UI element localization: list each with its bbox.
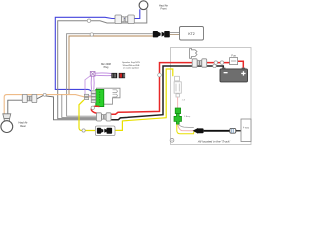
connector pair P1 (front horn harness): [115, 15, 134, 24]
mic connector J2: [119, 73, 125, 78]
wire red (power hot): [91, 106, 99, 113]
purple mic wires junction node: [85, 73, 111, 96]
mic connector J1: [111, 73, 117, 78]
ring splice on yellow: [82, 129, 85, 132]
outlet box: [241, 119, 251, 142]
black bullet connector pair to KT2: [153, 31, 170, 37]
rear horn plug: [3, 114, 11, 119]
inline fuse holder box: [95, 126, 115, 136]
svg-text:Plug: Plug: [104, 66, 109, 69]
ring splice on front horn wire: [87, 19, 90, 22]
ground symbol: [170, 138, 174, 142]
node X (mic splice): [90, 72, 95, 77]
truck enclosure box: [171, 48, 252, 145]
fuse FB (battery): [230, 58, 238, 65]
svg-text:on same ignition: on same ignition: [123, 67, 140, 70]
inline fuse F1 on yellow: [97, 128, 112, 134]
svg-text:2 A: 2 A: [182, 99, 186, 102]
stub wires into KT2: [170, 31, 180, 33]
green inline connector: [174, 114, 182, 125]
wire brown (KT2 pair conductor 2): [69, 36, 153, 95]
wire gray (front horn return): [58, 9, 147, 118]
svg-text:Fus: Fus: [231, 54, 236, 58]
head unit housing: [97, 88, 121, 104]
svg-text:Wheel/MicroUSB: Wheel/MicroUSB: [123, 64, 140, 67]
wire black (power ground): [110, 66, 223, 120]
pale fuse lead: [177, 97, 179, 108]
battery B1: [222, 68, 226, 70]
stack plug pins: [84, 91, 95, 103]
rear horn H2: [1, 121, 13, 133]
ring on red riser: [158, 73, 162, 77]
head unit board (green): [96, 89, 104, 106]
wire tan (rear horn hot): [4, 95, 93, 114]
svg-text:4 way: 4 way: [243, 128, 250, 130]
wire dark gray (rear horn return): [8, 100, 23, 114]
heavy lead to outlet: [204, 130, 230, 132]
ring splice on red hook: [91, 106, 94, 109]
svg-text:Rear: Rear: [20, 124, 26, 128]
wire yellow (accessory feed): [79, 100, 95, 131]
svg-text:KT2: KT2: [188, 32, 194, 36]
rings on red feed: [214, 61, 217, 64]
front horn H1: [139, 1, 148, 10]
wire blue (front horn hot): [55, 9, 140, 89]
connector pair P4 (battery feed): [192, 59, 207, 67]
ring splice on rear horn wire: [43, 93, 46, 96]
connector pair P2 (rear horn harness): [22, 94, 37, 102]
module KT2: [180, 27, 204, 41]
accessory plug leads: [177, 124, 194, 133]
wire gray tap to amp pair: [62, 95, 97, 118]
svg-text:All located in the 'Truck': All located in the 'Truck': [197, 140, 231, 144]
ring on black: [213, 64, 216, 67]
ring splice on KT2 pair: [90, 33, 93, 36]
svg-text:2 Amp: 2 Amp: [184, 115, 191, 118]
svg-text:Front: Front: [160, 7, 166, 11]
ignition key symbol: [190, 49, 197, 59]
svg-text:Speaker Key/GPS: Speaker Key/GPS: [122, 61, 140, 64]
inline barrel connector: [230, 128, 236, 133]
ghost fuse holder chain: [174, 76, 181, 97]
wire gray (KT2 pair conductor 1): [67, 34, 153, 117]
accessory plug (cone): [193, 128, 199, 134]
green fuse holder: [175, 108, 180, 114]
connector pair P3 (amp/power harness): [97, 113, 112, 121]
